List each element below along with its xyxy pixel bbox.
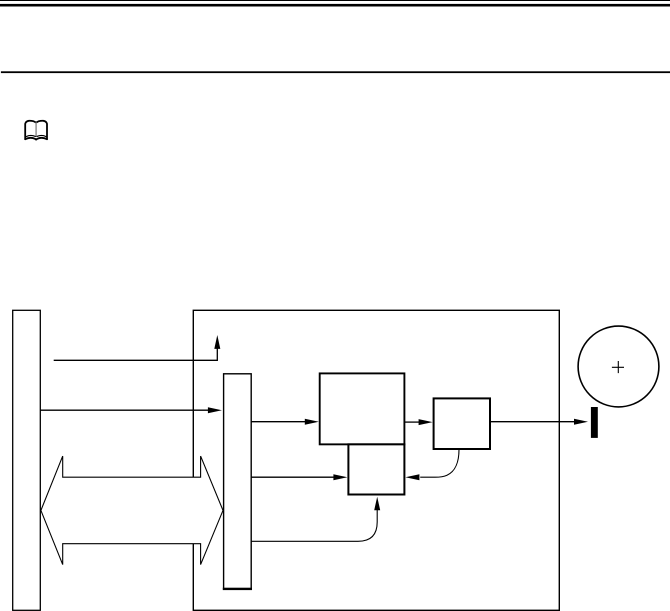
big processor box	[320, 373, 405, 444]
wire: inner bar to big box	[251, 421, 305, 423]
wire: small box to motor terminal	[490, 421, 574, 423]
lower sub box	[348, 444, 404, 494]
wire: inner bar curving up into lower box bottom	[251, 510, 377, 541]
page header top thin rule	[0, 0, 670, 1]
wire: curved feedback small box to lower box	[420, 450, 459, 478]
small driver box	[434, 398, 490, 449]
motor terminal black bar	[591, 407, 598, 438]
plus mark in motor	[612, 361, 624, 373]
open-book note icon	[25, 121, 47, 140]
wire: big box to small box	[404, 421, 419, 423]
wire: top signal line with up arrow	[54, 349, 218, 361]
main unit outer box	[193, 310, 559, 610]
page header thick rule	[0, 4, 670, 7]
left interface bar (tall narrow rectangle)	[13, 310, 41, 610]
wire: inner bar to lower box	[251, 476, 334, 478]
wire: arrow from left bar to inner bar	[40, 409, 208, 411]
section rule	[1, 71, 670, 73]
motor circle	[578, 326, 659, 407]
inner bar thick bottom edge	[223, 588, 252, 590]
bidirectional block arrow	[41, 456, 223, 564]
inner interface bar (narrow rectangle)	[224, 374, 252, 589]
